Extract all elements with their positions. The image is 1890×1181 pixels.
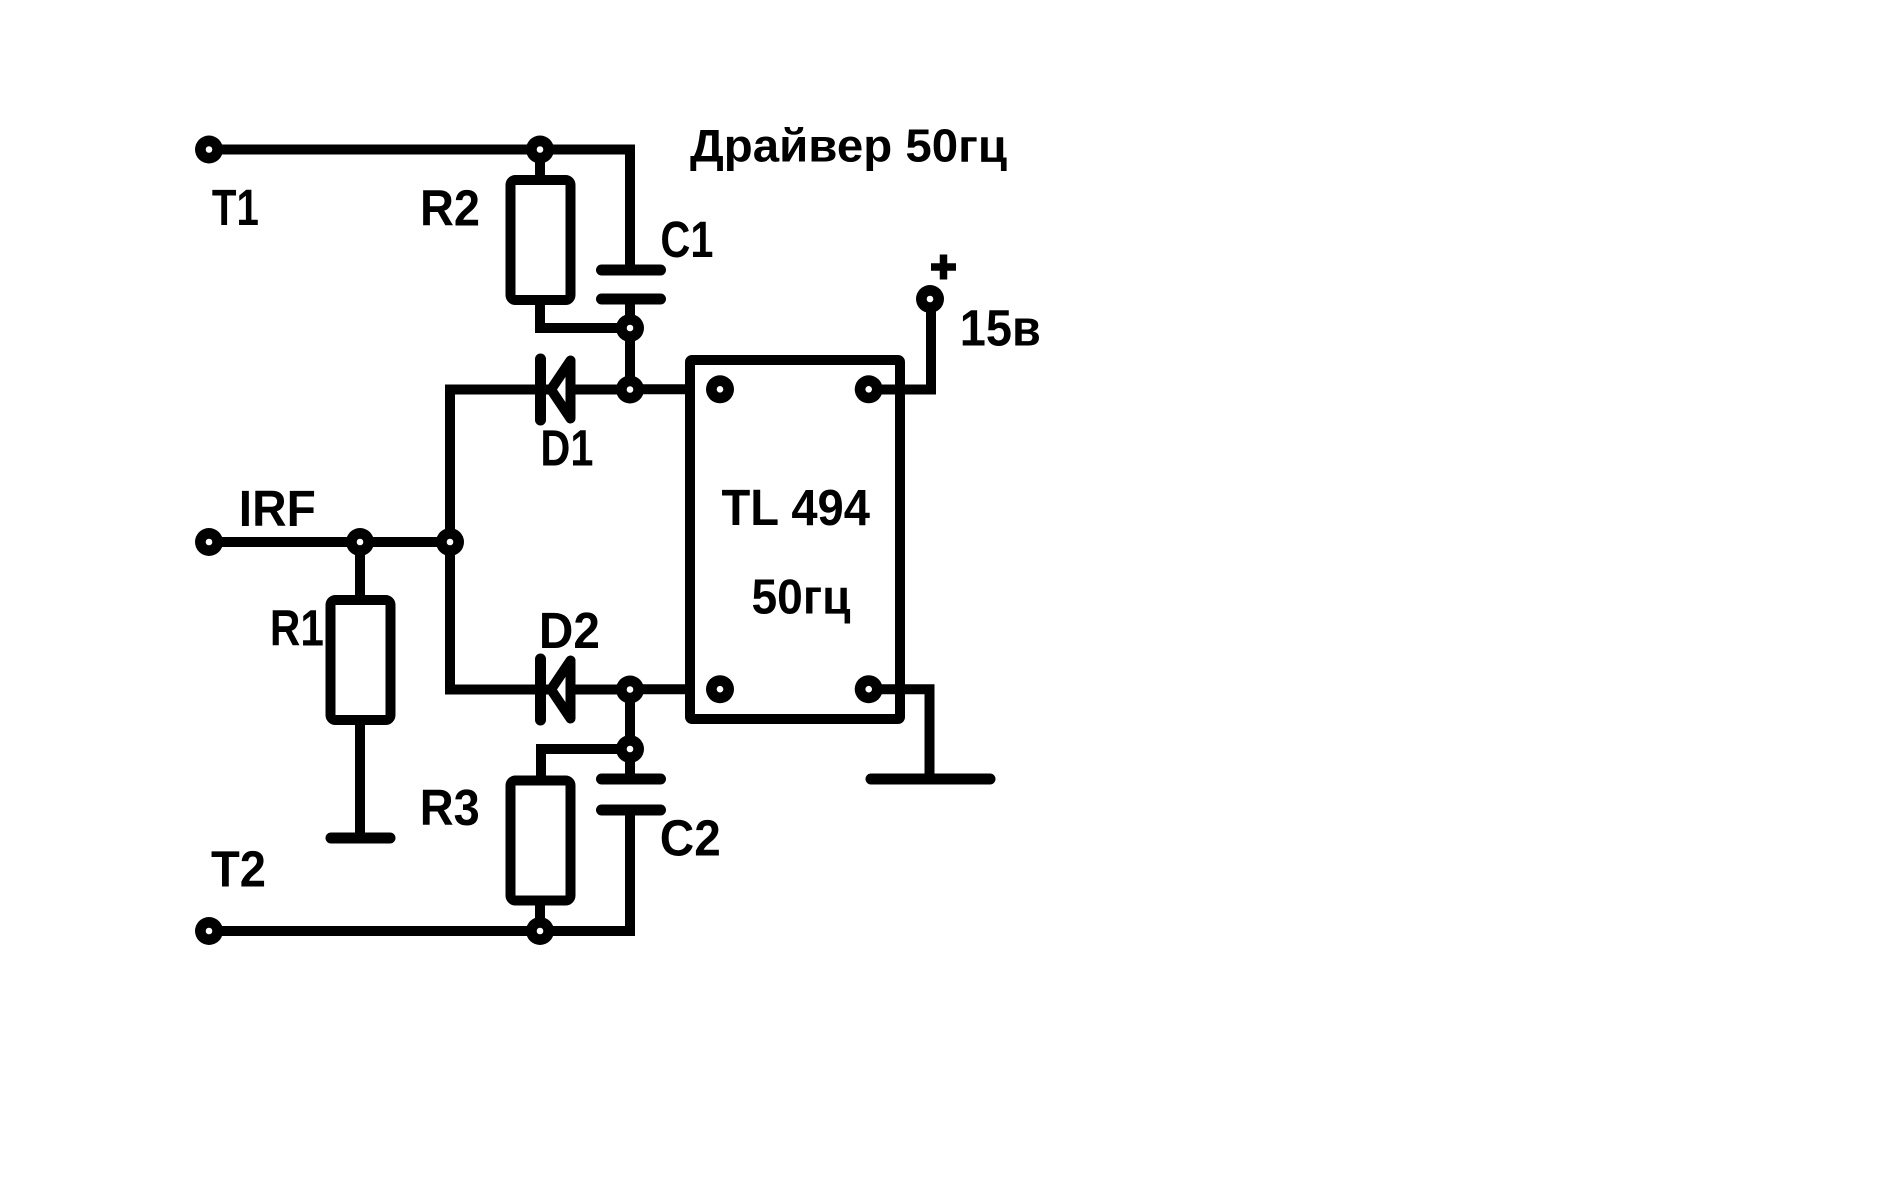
- wire node A to D1 node: [625, 328, 635, 390]
- svg-text:C2: C2: [660, 809, 721, 866]
- junction IRF/R1: [346, 528, 374, 556]
- junction node B: [616, 735, 644, 763]
- capacitor C1: [602, 270, 661, 299]
- svg-text:50гц: 50гц: [752, 571, 851, 625]
- svg-text:Драйвер 50гц: Драйвер 50гц: [690, 120, 1007, 172]
- svg-text:R2: R2: [420, 180, 480, 237]
- terminator bar below R1: [331, 833, 390, 844]
- resistor R1: [331, 600, 391, 720]
- wire R1 bottom stub: [355, 720, 365, 838]
- svg-text:IRF: IRF: [239, 480, 316, 537]
- junction D1 node: [616, 376, 644, 404]
- terminal IRF: [195, 528, 223, 556]
- svg-text:R1: R1: [270, 599, 324, 656]
- diode D2: [541, 659, 571, 720]
- svg-text:T2: T2: [211, 840, 266, 897]
- wire D2 node to pin 3: [630, 684, 720, 694]
- junction node A: [616, 314, 644, 342]
- pin 3 circle: [706, 675, 734, 703]
- wire pin 2 to +15v: [869, 310, 931, 390]
- wire R2 bottom to node A: [540, 300, 630, 328]
- plus sign: [931, 255, 956, 280]
- wire T1 top rail: [209, 150, 630, 271]
- wire IRF rail: [209, 537, 450, 547]
- pin 1 circle: [706, 375, 734, 403]
- capacitor C2: [602, 779, 661, 810]
- junction T2/R3: [526, 917, 554, 945]
- svg-text:D1: D1: [540, 419, 593, 476]
- wire T2 bottom rail: [209, 810, 630, 931]
- wire pin 4 to ground: [869, 689, 930, 779]
- pin 4 circle: [855, 675, 883, 703]
- wire left column: [445, 390, 455, 690]
- resistor R2: [511, 180, 571, 300]
- ground bar: [871, 774, 990, 785]
- pin 2 circle: [855, 375, 883, 403]
- wire C1 bottom to node A: [625, 299, 635, 328]
- junction IRF/left column: [436, 528, 464, 556]
- terminal holes: [717, 386, 724, 393]
- wire node B to C2 top: [625, 749, 635, 779]
- wire R1 top stub: [355, 542, 365, 600]
- svg-text:15в: 15в: [960, 300, 1041, 357]
- wire R2 top stub: [535, 150, 545, 181]
- junction T1/R2: [526, 136, 554, 164]
- terminal T1: [195, 136, 223, 164]
- terminal +15v: [916, 285, 944, 313]
- terminal T2: [195, 917, 223, 945]
- svg-text:D2: D2: [539, 602, 600, 659]
- IC U1 TL494 box: [690, 360, 900, 719]
- svg-text:C1: C1: [660, 211, 713, 268]
- wire D1 node to pin 1: [630, 384, 720, 394]
- junction D2 node: [616, 676, 644, 704]
- wire D1 rail: [445, 385, 630, 395]
- svg-text:TL 494: TL 494: [722, 479, 871, 536]
- wire R3 bottom stub: [535, 901, 545, 932]
- svg-text:T1: T1: [212, 179, 259, 236]
- wire D2 node to node B: [625, 690, 635, 750]
- wire R3 top to node B: [541, 749, 630, 780]
- diode D1: [541, 359, 571, 420]
- wire D2 rail: [445, 685, 630, 695]
- resistor R3: [511, 781, 571, 901]
- svg-text:R3: R3: [420, 779, 480, 836]
